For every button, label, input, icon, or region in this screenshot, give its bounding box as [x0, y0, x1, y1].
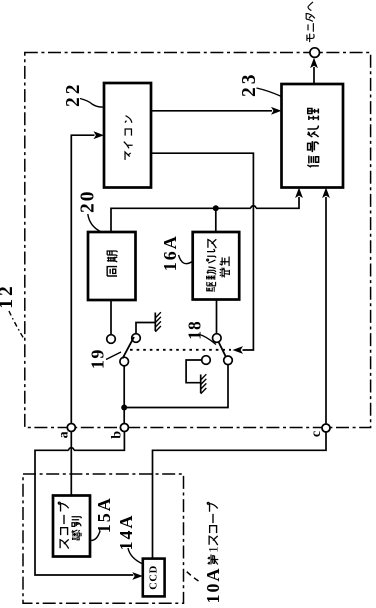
label 14A — [116, 514, 136, 551]
svg-text:19: 19 — [88, 348, 108, 369]
label 22 — [63, 81, 84, 107]
svg-text:1: 1 — [206, 546, 221, 553]
block U22 microcomputer (maikon) — [104, 83, 151, 188]
wire junction down to U16A top — [215, 208, 217, 232]
label 23 — [239, 71, 260, 97]
wire S19 right contact to ground — [136, 323, 155, 334]
label 19 — [88, 348, 108, 369]
label 18 — [185, 320, 205, 340]
label b — [109, 431, 124, 439]
wire node c down-left to CCD top — [153, 432, 327, 558]
leader from 19 to S19 arm — [106, 352, 121, 360]
junction node on sync line — [213, 205, 219, 211]
block U15A scope identification (scope shikibetsu) — [53, 496, 90, 557]
svg-text:16A: 16A — [160, 234, 180, 271]
scope unit boundary box 10A (dash-dot) — [23, 474, 184, 603]
block U16A drive pulse generator (kudou pulse hassei) — [193, 232, 240, 300]
wire S18 moving contact down and left to junction above b — [124, 365, 228, 408]
svg-text:c: c — [309, 431, 324, 437]
wire U16A bottom to switch S18 — [216, 300, 218, 334]
leader from 20 to block U20 — [88, 214, 101, 232]
switch S19 arm — [123, 337, 135, 359]
label 16A — [160, 234, 180, 271]
leader from 15A to block U15A — [90, 531, 100, 541]
label c — [309, 431, 324, 437]
label 10A dai-1 scope — [203, 502, 223, 603]
label 12 — [0, 283, 17, 309]
wire node b down-left to CCD input, hop over a-wire — [35, 432, 133, 575]
arrow into U23 left — [271, 107, 282, 115]
label 20 — [78, 189, 99, 213]
wire S18 left contact to ground — [186, 360, 202, 383]
leader from 14A to block U14A — [128, 548, 143, 564]
node b terminal — [120, 424, 128, 432]
leader from 16A to block U16A — [179, 255, 194, 264]
switch S18 — [202, 334, 233, 365]
svg-text:14A: 14A — [116, 514, 136, 551]
arrow into U23 bottom (left) — [295, 188, 303, 199]
label a — [56, 431, 71, 438]
block U23 signal processing (shingou shori) — [282, 84, 344, 188]
block U14A CCD — [143, 559, 165, 597]
wire S19 moving contact down to node b — [123, 366, 125, 423]
switch S19 — [107, 334, 141, 366]
leader from 23 to block U23 — [257, 88, 282, 97]
arrow into U23 bottom (right) — [322, 188, 330, 199]
svg-text:10A: 10A — [203, 567, 223, 604]
arrow into U22 left — [94, 131, 105, 139]
svg-text:a: a — [56, 431, 71, 438]
wire U22 to switch control (down right side) — [151, 153, 253, 350]
node c terminal — [322, 424, 330, 432]
svg-text:b: b — [109, 431, 124, 439]
node a terminal — [67, 424, 75, 432]
svg-text:18: 18 — [185, 320, 205, 340]
arrow into CCD left — [132, 572, 143, 580]
svg-text:23: 23 — [239, 71, 260, 97]
arrow pointing left at switch link — [233, 346, 244, 354]
svg-text:CCD: CCD — [149, 565, 160, 590]
dotted interlock line between S19 and S18 — [130, 349, 231, 351]
leader from 18 to S18 arm — [198, 334, 216, 345]
svg-text:15A: 15A — [94, 496, 114, 533]
svg-text:20: 20 — [78, 189, 99, 213]
switch S18 arm — [219, 342, 226, 357]
arrow up into monitor terminal — [310, 58, 318, 69]
monitor terminal circle on border — [310, 48, 320, 58]
label 15A — [94, 496, 114, 533]
ground G1 — [155, 312, 161, 332]
label: to monitor (monita-he) — [306, 2, 315, 42]
processor unit boundary box 12 (dash-dot) — [25, 53, 371, 428]
wire U22 to U23 — [151, 110, 272, 112]
leader from label 12 to box (dash-dot) — [9, 311, 24, 339]
svg-text:22: 22 — [63, 81, 84, 107]
leader from 22 to block U22 — [80, 99, 104, 108]
ground G2 — [201, 374, 207, 394]
wire U20 bottom to switch S19 — [110, 300, 112, 335]
block U20 sync (douki) — [88, 232, 136, 300]
junction above node b — [121, 405, 127, 411]
wire U20 top to U23 bottom (with hop over control wire) — [111, 197, 299, 232]
wire node a down to U15A (scope id) — [70, 432, 72, 496]
wire node a up to U22 input — [71, 135, 94, 423]
svg-text:12: 12 — [0, 283, 17, 309]
leader from label 10A to scope box (dash-dot) — [185, 570, 199, 582]
wire node c up to U23 bottom — [325, 197, 327, 423]
wire U23 top to monitor terminal — [313, 67, 315, 84]
